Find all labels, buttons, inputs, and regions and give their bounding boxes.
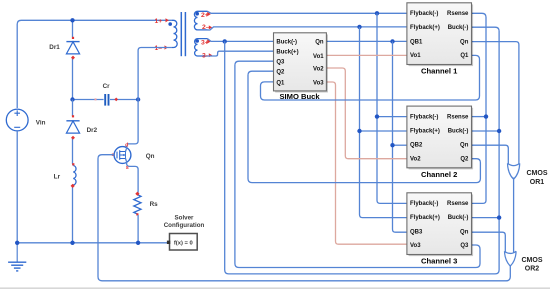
wire Vo1 (salmon): SIMO Vo1 to Channel 1 [326, 54, 407, 56]
svg-text:Qn: Qn [460, 143, 469, 149]
diode Dr2 and wire down [72, 100, 74, 165]
wire: Flyback(-) vertical feed [377, 13, 407, 203]
polarity dot primary [168, 22, 172, 26]
svg-text:Channel 3: Channel 3 [421, 257, 457, 266]
svg-text:Qn: Qn [460, 229, 469, 235]
subsystem block Channel 3 [409, 194, 474, 256]
svg-text:Solver: Solver [175, 214, 195, 221]
ground rail [17, 242, 168, 244]
wire: Vin bottom to ground rail [16, 131, 18, 243]
wire: Channel1 Qn to CMOS OR1 input [472, 42, 519, 165]
svg-text:Vo3: Vo3 [313, 80, 324, 86]
node: Cr / drain column junction [136, 97, 140, 101]
node: Flyback(-) rail branch [375, 11, 379, 15]
node: Flyback(+) rail branch [357, 25, 361, 29]
svg-text:Qn: Qn [460, 39, 469, 45]
wire rail: winding 2- to Channel 1 Flyback(+) [208, 27, 407, 30]
svg-text:Vo2: Vo2 [313, 66, 324, 72]
svg-text:Flyback(+): Flyback(+) [410, 215, 440, 221]
svg-text:Buck(-): Buck(-) [448, 25, 469, 31]
wire: Channel3 Q3 output feedback to SIMO Q3 [235, 61, 480, 267]
svg-text:Channel 1: Channel 1 [421, 67, 458, 76]
node: ground rail / Vin junction [15, 241, 19, 245]
wire: Qn drain [126, 146, 127, 152]
transformer secondary winding 2, terminals 2+ / 2- [194, 11, 207, 30]
solver configuration block f(x)=0 [170, 234, 198, 251]
wire: Rsense net linking channel Rsense outputs [472, 13, 487, 203]
svg-text:Q3: Q3 [276, 60, 285, 66]
wire: Qn gate from CMOS OR2 output (long bottom wire) [98, 155, 510, 281]
diode Dr1 [66, 41, 79, 43]
svg-text:1+: 1+ [155, 18, 163, 25]
wire: Flyback(+) vertical feed [360, 27, 407, 218]
transistor Qn (MOSFET) [114, 147, 131, 164]
svg-text:Rsense: Rsense [447, 11, 469, 17]
ground [16, 243, 18, 262]
polarity dot winding 2 [195, 12, 199, 16]
wire Vo3 (salmon): SIMO Vo3 to Channel 3 [326, 82, 407, 244]
node: ground rail / Rs junction [136, 241, 140, 245]
wire: Rs to ground rail [137, 215, 139, 243]
svg-text:Dr2: Dr2 [87, 127, 98, 134]
svg-text:Rs: Rs [150, 201, 159, 208]
svg-text:OR1: OR1 [530, 179, 545, 186]
svg-text:QB2: QB2 [410, 143, 423, 149]
svg-text:Flyback(+): Flyback(+) [410, 25, 440, 31]
svg-text:QB1: QB1 [410, 39, 423, 45]
wire: CMOS OR1 output to CMOS OR2 input [513, 178, 515, 253]
svg-text:Lr: Lr [54, 173, 61, 180]
wire Vo2 (salmon): SIMO Vo2 to Channel 2 [326, 68, 407, 159]
wire: Dr1 branch column [72, 20, 74, 99]
svg-text:Q2: Q2 [276, 70, 285, 76]
transformer secondary winding 3, terminals 3+ / 3- [195, 39, 208, 56]
svg-text:Cr: Cr [103, 83, 111, 90]
subsystem block Channel 2 [409, 108, 474, 170]
subsystem block Channel 1 [409, 4, 474, 66]
svg-text:Buck(+): Buck(+) [276, 50, 298, 56]
svg-text:Qn: Qn [315, 40, 324, 46]
wire: Channel2 Q2 output feedback to SIMO Q2 [248, 71, 480, 182]
wire: Channel3 Qn to CMOS OR2 input [472, 232, 506, 252]
node: Dr1/Dr2/Cr junction [70, 97, 74, 101]
svg-text:CMOS: CMOS [522, 257, 543, 264]
svg-text:Buck(-): Buck(-) [448, 215, 469, 221]
svg-text:Vo2: Vo2 [410, 156, 421, 162]
svg-text:Dr1: Dr1 [49, 44, 60, 51]
svg-text:s: s [126, 165, 129, 171]
svg-text:Q3: Q3 [460, 243, 469, 249]
polarity dot winding 3 [195, 39, 199, 43]
transformer core [180, 12, 182, 56]
node: QB2 branch [390, 143, 394, 147]
resistor Rs [134, 195, 141, 214]
svg-text:Buck(-): Buck(-) [276, 40, 297, 46]
svg-text:Vo3: Vo3 [410, 243, 421, 249]
wire rail: winding 3- to SIMO Buck(+) input [208, 51, 274, 56]
svg-text:Q1: Q1 [460, 53, 469, 59]
node: Ch3 Buck(-) junction [497, 215, 501, 219]
wire rail: winding 2+ to Channel 1 Flyback(-) [208, 11, 407, 13]
node: Ch2 Flyback(-) branch [375, 114, 379, 118]
svg-text:1–: 1– [155, 45, 163, 52]
svg-text:CMOS: CMOS [527, 170, 548, 177]
svg-text:d: d [125, 142, 128, 148]
svg-text:Vin: Vin [36, 119, 46, 126]
svg-text:Q1: Q1 [276, 80, 285, 86]
voltage source Vin [6, 109, 28, 131]
inductor Lr [73, 166, 76, 186]
node: top rail / Dr1 junction [70, 18, 74, 22]
wire: top rail from Vin to transformer primary 1+ [17, 20, 172, 108]
svg-text:Flyback(+): Flyback(+) [410, 129, 440, 135]
capacitor Cr [104, 94, 106, 106]
node: Ch2 Rsense junction [484, 114, 488, 118]
svg-text:SIMO Buck: SIMO Buck [279, 92, 320, 101]
svg-text:Qn: Qn [146, 153, 155, 160]
svg-text:Rsense: Rsense [447, 201, 469, 207]
svg-text:Rsense: Rsense [447, 114, 469, 120]
capacitor Cr branch wire [73, 99, 139, 101]
svg-text:f(x) = 0: f(x) = 0 [174, 241, 193, 247]
wire: Channel2 Qn to CMOS OR1 input [472, 145, 509, 164]
node: Ch2 Buck(-) junction [497, 129, 501, 133]
subsystem block U1 SIMO Buck [275, 34, 328, 92]
svg-text:OR2: OR2 [525, 265, 540, 272]
svg-text:Vo1: Vo1 [313, 54, 324, 60]
wire: Channel1 Q1 output feedback to SIMO Q1 [261, 55, 480, 100]
wire: Buck(-) net (3+ node to channel Buck(-) outputs) [225, 27, 499, 274]
node: Ch2 Flyback(+) branch [357, 129, 361, 133]
svg-text:Channel 2: Channel 2 [421, 170, 457, 179]
gate CMOS OR1 [508, 163, 520, 179]
svg-text:Flyback(-): Flyback(-) [410, 114, 438, 120]
wire: QB vertical feed to QB2,QB3 [393, 41, 407, 232]
wire rail: winding 3+ to SIMO Buck(-) input [208, 39, 274, 42]
svg-text:Q2: Q2 [460, 156, 469, 162]
transformer primary winding, terminals 1+ / 1- [172, 20, 177, 47]
node: 3+ / Buck(-) net branch [223, 39, 227, 43]
svg-text:Vo1: Vo1 [410, 53, 421, 59]
gate CMOS OR2 [505, 251, 517, 266]
node: Qn/QB rail branch [390, 39, 394, 43]
svg-text:Flyback(-): Flyback(-) [410, 11, 438, 17]
svg-text:Buck(-): Buck(-) [448, 129, 469, 135]
svg-text:QB3: QB3 [410, 229, 423, 235]
svg-text:Flyback(-): Flyback(-) [410, 201, 438, 207]
wire: SIMO Qn output to Channel 1 QB1 [326, 40, 407, 42]
wire: primary 1- lead down to MOSFET drain column [127, 48, 172, 144]
wire: Qn source [126, 159, 139, 193]
node: ground rail / Lr junction [70, 241, 74, 245]
svg-text:Configuration: Configuration [164, 222, 205, 229]
